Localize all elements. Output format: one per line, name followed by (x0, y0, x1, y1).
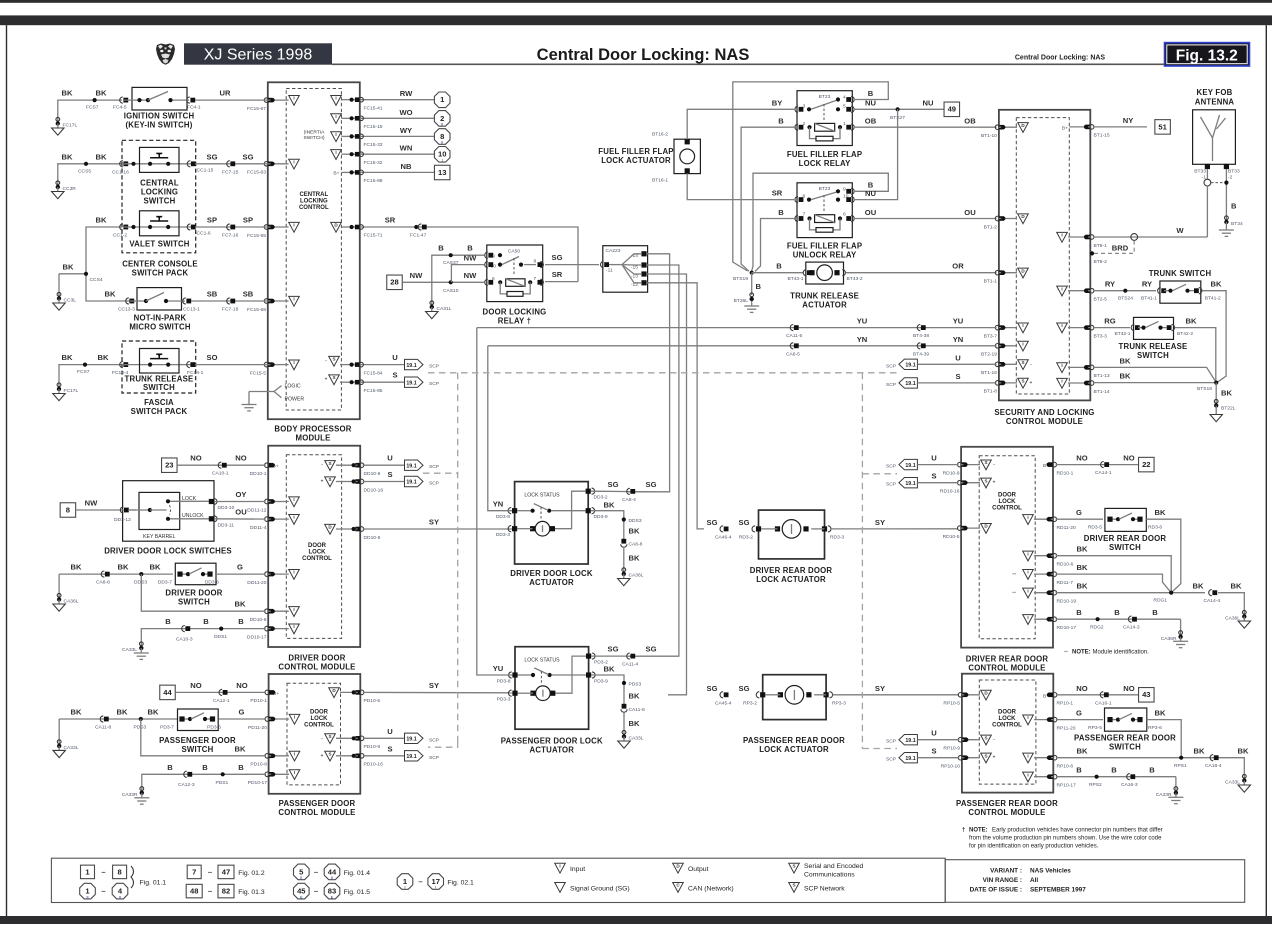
svg-text:VALET SWITCH: VALET SWITCH (129, 240, 189, 249)
page left border (6, 25, 7, 916)
BPM input pin FC15-58 (247, 299, 273, 313)
driver module internal wire left (268, 517, 289, 521)
svg-text:LOGIC: LOGIC (285, 384, 301, 390)
svg-text:-15: -15 (631, 264, 638, 270)
svg-text:PASSENGER DOOR: PASSENGER DOOR (279, 799, 356, 808)
svg-text:SCP: SCP (886, 464, 896, 470)
wire OU (853, 208, 996, 219)
svg-text:SG: SG (739, 518, 750, 527)
svg-text:NOTE:: NOTE: (1072, 650, 1091, 656)
connector BT4-39 (913, 343, 929, 358)
svg-text:FC15-58: FC15-58 (247, 307, 266, 313)
svg-text:B+: B+ (1062, 126, 1068, 132)
wire SG passenger actuator (591, 645, 679, 657)
svg-text:CONTROL: CONTROL (304, 723, 334, 729)
svg-text:CONTROL: CONTROL (992, 723, 1022, 729)
driver module pin DD10-16 (355, 479, 383, 493)
svg-text:BY: BY (772, 98, 783, 107)
svg-text:B: B (1231, 202, 1237, 211)
CA223 pin -11 (601, 262, 613, 274)
variant box (945, 860, 1244, 903)
label driver door switch (165, 589, 222, 607)
svg-text:DD10-17: DD10-17 (247, 634, 267, 640)
wire NY (1093, 116, 1147, 127)
svg-text:NO: NO (190, 681, 201, 690)
svg-text:CA16-3: CA16-3 (1121, 782, 1138, 788)
svg-text:CA8-4: CA8-4 (622, 497, 636, 503)
svg-text:CAS10: CAS10 (443, 288, 459, 294)
svg-text:19.1: 19.1 (905, 756, 915, 762)
svg-text:Communications: Communications (804, 872, 855, 879)
svg-text:DD11-4: DD11-4 (250, 525, 267, 531)
connector CA8-8 (96, 571, 110, 586)
module passenger door box (269, 674, 361, 794)
svg-text:I: I (335, 114, 336, 119)
wire SR to unlock relay (687, 174, 794, 200)
svg-text:SWITCH: SWITCH (1137, 351, 1169, 360)
svg-text:I: I (1027, 772, 1028, 777)
passenger rear internal wire left scp (962, 756, 980, 760)
label not-in-park micro switch (129, 314, 190, 332)
svg-text:FC14-1: FC14-1 (187, 370, 204, 376)
ground CA33R passenger (122, 787, 150, 805)
wire S passenger (363, 744, 405, 756)
svg-text:82: 82 (222, 887, 230, 896)
passenger actuator motor (518, 656, 586, 700)
security internal wire left (999, 381, 1017, 385)
svg-text:19.1: 19.1 (406, 480, 416, 486)
connector CC13-1 (183, 298, 200, 313)
svg-text:BT3-3: BT3-3 (1094, 333, 1108, 339)
passenger actuator switch (518, 668, 586, 683)
connector CA12-1 (213, 689, 230, 704)
svg-text:G: G (237, 563, 243, 572)
svg-text:BK: BK (117, 708, 128, 717)
svg-text:RP10-9: RP10-9 (943, 746, 960, 752)
security internal wire right (1068, 289, 1090, 293)
wire SG passenger rear (707, 684, 750, 693)
svg-text:SCP: SCP (886, 363, 896, 369)
svg-text:NY: NY (1123, 116, 1134, 125)
ground CA36L rear (1225, 610, 1250, 628)
svg-text:SCP: SCP (886, 739, 896, 745)
wire SP (195, 216, 268, 228)
driver door lock actuator box (515, 482, 589, 564)
svg-text:Fig. 01.3: Fig. 01.3 (238, 889, 265, 896)
svg-text:YU: YU (953, 317, 964, 326)
svg-text:SCP: SCP (429, 755, 439, 761)
passenger rear pin RP10-6 (1048, 755, 1073, 769)
svg-text:22: 22 (1142, 460, 1150, 469)
connector box 51 (1155, 120, 1171, 134)
svg-text:I: I (293, 624, 294, 629)
svg-text:RP10-17: RP10-17 (1057, 783, 1077, 789)
svg-text:S: S (984, 753, 987, 758)
driver module pin DD11-12 (247, 499, 273, 513)
svg-text:SWITCH: SWITCH (182, 745, 214, 754)
svg-text:NU: NU (865, 99, 876, 108)
connector CA16-1 (1095, 692, 1112, 707)
SCP pentagon U passenger rear (886, 729, 959, 745)
antenna right leg (1224, 169, 1237, 221)
wire W (1093, 226, 1208, 240)
driver module pin DD10-5 (355, 527, 380, 541)
passenger module internal B+ dot (271, 690, 275, 694)
svg-text:CA16-4: CA16-4 (1205, 763, 1222, 769)
relay CA50 internals (485, 248, 544, 296)
BPM internal wire left (268, 98, 289, 102)
svg-text:SG: SG (608, 480, 619, 489)
svg-text:VIN RANGE :: VIN RANGE : (983, 877, 1022, 884)
driver rear triangle BK1 (1023, 551, 1034, 561)
svg-text:+: + (993, 755, 996, 760)
svg-text:FC15-15: FC15-15 (364, 124, 383, 130)
trunk release switch (124, 349, 191, 374)
svg-text:I: I (1061, 363, 1062, 368)
svg-text:CC1-6: CC1-6 (197, 231, 211, 237)
svg-text:B: B (1076, 766, 1082, 775)
SCP bus left elbow passenger (428, 742, 458, 748)
ground CA33L rear (1225, 758, 1250, 793)
security triangle YU (1018, 323, 1029, 333)
SCP bus stub driver rear (862, 473, 897, 475)
svg-text:RD10-6: RD10-6 (1057, 562, 1074, 568)
svg-text:PDS3: PDS3 (134, 725, 147, 731)
wire UR (195, 89, 268, 101)
label fuel filler flap lock relay (787, 150, 862, 168)
label passenger rear door control module (956, 799, 1058, 817)
splice DDS1 (214, 627, 227, 641)
driver rear actuator motor (739, 520, 845, 541)
driver rear internal wire left scp (961, 481, 980, 485)
connector CC1-15 (187, 161, 213, 174)
svg-text:NW: NW (410, 271, 423, 280)
splice DDS3 (134, 572, 147, 586)
svg-text:ACTUATOR: ACTUATOR (529, 746, 574, 755)
svg-text:BK: BK (1194, 747, 1205, 756)
svg-text:DD10-5: DD10-5 (364, 535, 381, 541)
svg-text:S: S (984, 460, 987, 465)
svg-text:NU: NU (923, 99, 934, 108)
svg-text:RY: RY (1105, 280, 1115, 289)
svg-text:CA50: CA50 (508, 248, 521, 254)
driver module pin DD11-4 (250, 517, 273, 531)
passenger rear triangle B (1023, 772, 1034, 782)
svg-text:DD3-6: DD3-6 (205, 580, 219, 586)
svg-text:19.1: 19.1 (406, 380, 416, 386)
svg-text:RP10-6: RP10-6 (1057, 764, 1074, 770)
svg-text:B+: B+ (333, 170, 339, 176)
legend serial (789, 863, 864, 879)
connector CA6-5 (786, 343, 800, 358)
SCP pentagon U security (886, 353, 997, 369)
legend input (555, 863, 586, 873)
svg-text:-13: -13 (631, 273, 638, 279)
wire B trunk release actuator (752, 262, 803, 273)
svg-text:BK: BK (63, 262, 74, 271)
svg-text:OB: OB (865, 117, 877, 126)
driver module output triangle SY (325, 524, 336, 534)
svg-text:SCP: SCP (429, 481, 439, 487)
svg-text:I: I (293, 96, 294, 101)
svg-text:S: S (387, 744, 392, 753)
svg-text:LOCK STATUS: LOCK STATUS (524, 492, 560, 498)
wire BK ignition (58, 89, 122, 123)
BPM pin FC15-84 (355, 362, 383, 376)
svg-text:Early production vehicles have: Early production vehicles have connector… (992, 828, 1163, 834)
driver rear pin RD11-20 (1048, 517, 1076, 531)
svg-text:RD11-20: RD11-20 (1057, 525, 1076, 531)
svg-text:LOCK: LOCK (999, 716, 1017, 722)
svg-text:PD10-16: PD10-16 (364, 762, 384, 768)
BPM input triangle SG (289, 159, 300, 169)
BPM internal wire right (341, 134, 355, 138)
driver rear triangle BK3 (1012, 588, 1033, 598)
svg-text:PASSENGER DOOR LOCK: PASSENGER DOOR LOCK (501, 737, 603, 746)
connector FC14-1 (187, 362, 204, 377)
antenna left leg with connector (1204, 169, 1211, 237)
wire SR from BPM (360, 216, 578, 282)
label center console switch pack (122, 259, 198, 277)
svg-text:BK: BK (1077, 545, 1088, 554)
security triangle OB (1018, 123, 1029, 133)
svg-text:FC15-63: FC15-63 (247, 170, 266, 176)
wire WN (360, 144, 434, 155)
label trunk release switch right (1119, 342, 1188, 360)
passenger module SCP plus triangle (321, 751, 336, 761)
wire RW (360, 89, 434, 100)
svg-text:CCS5: CCS5 (78, 168, 91, 174)
BPM triangle UR col2 (331, 96, 342, 106)
svg-text:BK: BK (629, 527, 640, 536)
connector CA10-3 (176, 626, 193, 643)
SCP bus left stub driver (423, 472, 458, 474)
svg-text:5: 5 (843, 103, 846, 109)
label driver door lock actuator (510, 569, 593, 587)
driver rear pin RD10-17 (1048, 617, 1076, 631)
passenger module pin PD10-9 (355, 736, 380, 750)
svg-text:BT4-39: BT4-39 (913, 351, 929, 357)
svg-text:PASSENGER DOOR: PASSENGER DOOR (159, 736, 236, 745)
wire NO driver (177, 454, 266, 466)
valet switch (124, 211, 191, 236)
svg-text:U: U (387, 454, 393, 463)
passenger module triangle B (289, 770, 300, 780)
svg-text:CA10-1: CA10-1 (212, 471, 229, 477)
svg-text:BT41-2: BT41-2 (1205, 296, 1221, 302)
connector CA11-8 vertical (621, 704, 645, 713)
wire NU lock relay pin5 (853, 99, 944, 110)
driver module internal B+ dot (271, 463, 275, 467)
wire SB (191, 290, 268, 302)
connector symbol 13 (434, 165, 450, 180)
security internal wire left (999, 125, 1017, 129)
label central locking control (299, 192, 329, 211)
svg-text:RP3-2: RP3-2 (743, 700, 757, 706)
svg-text:Fig. 01.1: Fig. 01.1 (140, 879, 167, 886)
svg-text:(KEY-IN SWITCH): (KEY-IN SWITCH) (125, 121, 192, 130)
svg-text:LOCK ACTUATOR: LOCK ACTUATOR (601, 156, 671, 165)
driver actuator motor (517, 491, 585, 536)
passenger rear door lock actuator box (763, 675, 826, 720)
label fuel filler flap lock actuator (598, 147, 673, 165)
passenger module pin PD11-20 (248, 717, 273, 731)
svg-text:DOOR LOCKING: DOOR LOCKING (483, 307, 547, 316)
svg-text:Fig. 01.4: Fig. 01.4 (344, 870, 371, 877)
svg-text:CA11-4: CA11-4 (622, 662, 638, 668)
svg-text:I: I (293, 497, 294, 502)
svg-text:BT3-7: BT3-7 (984, 333, 998, 339)
security internal wire right (1068, 326, 1090, 330)
security B+ label (1062, 126, 1068, 132)
driver rear internal wire right (1034, 572, 1053, 576)
svg-text:83: 83 (328, 887, 336, 896)
svg-text:PASSENGER REAR DOOR: PASSENGER REAR DOOR (743, 736, 845, 745)
fuel filler flap unlock relay box (797, 183, 852, 238)
svg-text:SWITCH PACK: SWITCH PACK (132, 268, 189, 277)
svg-text:FC15-85: FC15-85 (364, 388, 383, 394)
svg-text:B: B (1111, 766, 1117, 775)
svg-text:LOCK ACTUATOR: LOCK ACTUATOR (759, 745, 829, 754)
svg-text:DOOR: DOOR (998, 493, 1017, 499)
svg-text:CC13-1: CC13-1 (183, 307, 200, 313)
security internal wire left (999, 271, 1017, 275)
svg-text:RP3-6: RP3-6 (1148, 725, 1162, 731)
label driver rear door control module (966, 655, 1049, 673)
svg-text:BT41-1: BT41-1 (1141, 296, 1157, 302)
connector box 43 (1139, 688, 1155, 703)
svg-text:RG: RG (1104, 317, 1115, 326)
wire S SCP BPM (360, 371, 405, 383)
SCP bus right vertical (861, 373, 863, 749)
antenna pins (1194, 164, 1240, 181)
wire NU unlock relay pin10 (853, 109, 897, 199)
svg-text:WN: WN (400, 144, 413, 153)
svg-text:BK: BK (150, 563, 161, 572)
svg-text:BK: BK (96, 152, 107, 161)
passenger door lock actuator box (515, 647, 589, 730)
driver module pin DD10-6 (250, 609, 273, 623)
SCP pentagon S driver (405, 476, 440, 486)
svg-text:I: I (1027, 588, 1028, 593)
svg-text:CA223: CA223 (606, 248, 621, 254)
svg-text:WY: WY (400, 126, 412, 135)
svg-text:Serial and Encoded: Serial and Encoded (804, 863, 864, 870)
svg-text:SO: SO (207, 353, 218, 362)
svg-text:CONTROL MODULE: CONTROL MODULE (278, 663, 355, 672)
svg-text:S: S (792, 883, 795, 888)
svg-text:I: I (294, 715, 295, 720)
connector CA223 box (603, 246, 648, 293)
connector symbol 1 (434, 92, 450, 108)
wire SG relay to CA223 (545, 253, 599, 265)
svg-text:19.1: 19.1 (905, 738, 915, 744)
svg-text:DOOR: DOOR (310, 710, 329, 716)
driver actuator pins (496, 488, 608, 538)
svg-text:FCS7: FCS7 (77, 369, 90, 375)
svg-text:SWITCH: SWITCH (144, 196, 176, 205)
SCP pentagon S driver rear (886, 472, 959, 488)
ground CA31L (426, 301, 452, 319)
svg-text:SWITCH: SWITCH (1109, 543, 1141, 552)
svg-text:CENTER CONSOLE: CENTER CONSOLE (122, 259, 198, 268)
svg-text:MODULE: MODULE (296, 434, 331, 443)
svg-text:S: S (328, 734, 331, 739)
svg-text:CA46-4: CA46-4 (715, 534, 732, 540)
label door lock control driver rear (992, 493, 1022, 512)
svg-text:–: – (101, 867, 105, 876)
ground BT26L (734, 273, 762, 313)
BPM internal wire left (268, 225, 289, 229)
label passenger rear door lock actuator (743, 736, 845, 754)
svg-text:BK: BK (96, 216, 107, 225)
driver rear pin RD10-9 (943, 462, 966, 476)
SCP bus left vertical (457, 373, 459, 742)
SCP pentagon U driver rear (886, 454, 959, 470)
svg-text:BT1-14: BT1-14 (1094, 389, 1110, 395)
svg-text:-11: -11 (606, 268, 613, 274)
svg-text:YU: YU (857, 317, 868, 326)
svg-text:YN: YN (953, 335, 964, 344)
svg-text:DOOR: DOOR (998, 710, 1017, 716)
svg-text:SY: SY (429, 518, 439, 527)
center console switch pack dashed box (122, 140, 196, 253)
label passenger rear door switch (1074, 733, 1176, 751)
svg-text:BTS19: BTS19 (733, 276, 748, 282)
svg-text:–: – (208, 867, 212, 876)
driver rear internal wire right (1034, 591, 1053, 595)
ground CA33L actuator (618, 712, 644, 749)
wire B lock relay pin2 (741, 117, 797, 272)
svg-text:NOTE:: NOTE: (969, 828, 988, 834)
svg-text:RP11-20: RP11-20 (1057, 725, 1076, 731)
legend output (673, 863, 709, 873)
svg-text:–: – (208, 887, 212, 896)
svg-text:BT4-38: BT4-38 (913, 333, 929, 339)
label security module (994, 408, 1094, 426)
wire SY driver rear (831, 518, 958, 529)
svg-text:B: B (238, 617, 244, 626)
antenna symbol (1201, 115, 1226, 161)
svg-text:CA10-3: CA10-3 (176, 637, 193, 643)
svg-text:SB: SB (207, 290, 218, 299)
splice CAS37 (443, 253, 459, 266)
svg-text:U: U (931, 729, 937, 738)
wire BK driver rear switch (1146, 508, 1181, 592)
svg-text:G: G (239, 708, 245, 717)
driver module internal wire left (268, 609, 289, 613)
svg-text:CA6-5: CA6-5 (786, 351, 800, 357)
connector CA46-4 (715, 526, 732, 541)
svg-text:XJ Series 1998: XJ Series 1998 (204, 46, 313, 63)
svg-text:BK: BK (1155, 709, 1166, 718)
driver rear SCP minus triangle (981, 460, 996, 470)
driver rear output triangle SY (981, 524, 992, 534)
svg-text:ACTUATOR: ACTUATOR (529, 578, 574, 587)
svg-text:B: B (778, 208, 784, 217)
wire B driver rear (1056, 608, 1181, 619)
SCP bus horizontal (428, 372, 899, 374)
connector CA14-3 (1123, 616, 1140, 631)
svg-text:BK: BK (604, 665, 615, 674)
svg-text:FC1-47: FC1-47 (410, 233, 427, 239)
svg-text:BK: BK (71, 563, 82, 572)
wire B unlock relay pin9 loop (752, 173, 889, 271)
security pin BT1-8 (984, 381, 1004, 395)
svg-text:SB: SB (243, 290, 254, 299)
driver module internal wire SY (336, 527, 358, 531)
svg-text:PD10-9: PD10-9 (364, 744, 381, 750)
